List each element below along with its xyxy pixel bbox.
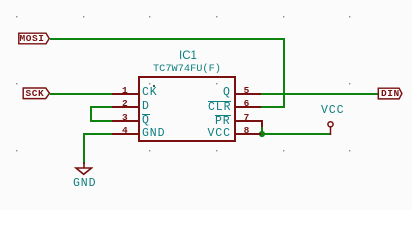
pin 3 name Q overline <box>142 114 150 126</box>
pin 1 name CK <box>142 88 158 98</box>
pin 2 D stub <box>112 106 139 108</box>
pin 5 Q stub <box>235 93 262 95</box>
junction <box>257 129 267 139</box>
wire junction to VCC <box>262 133 331 135</box>
wire loop bottom <box>91 120 112 122</box>
wire MOSI horizontal <box>50 38 285 40</box>
pin 3 Qbar stub <box>112 120 139 122</box>
pin 5 number <box>244 86 250 95</box>
wire GND vertical <box>83 133 85 164</box>
pin 7 PRbar stub <box>235 120 262 122</box>
wire loop D to Qbar top <box>91 106 112 108</box>
wire to pin 6 CLR <box>259 106 284 108</box>
global label DIN <box>376 86 412 102</box>
pin 7 name PR overline <box>215 115 231 127</box>
pin 2 number <box>122 99 128 108</box>
pin 6 name CLR overline <box>208 101 231 113</box>
pin 4 GND stub <box>112 133 139 135</box>
pin 6 CLRbar stub <box>235 106 262 108</box>
pin 7 number <box>244 113 250 122</box>
pin 1 CK stub <box>112 93 139 95</box>
global label SCK <box>21 86 61 102</box>
IC U1 body <box>138 76 236 143</box>
pin 8 VCC stub <box>235 133 262 135</box>
ground symbol <box>73 162 93 176</box>
pin 4 name GND <box>142 129 165 139</box>
TC7W74FU(F) value text <box>153 65 221 74</box>
wire Q to DIN <box>259 93 379 95</box>
pin 2 name D <box>142 102 150 112</box>
wire pin4 GND horizontal <box>84 133 112 135</box>
power symbol VCC <box>324 118 338 137</box>
wire pin7 PR vertical to junction <box>261 120 263 135</box>
pin 1 number <box>122 86 128 95</box>
wire loop left vertical <box>90 106 92 122</box>
global label MOSI <box>16 31 56 47</box>
IC1 reference text <box>179 52 197 61</box>
wire MOSI vertical <box>283 38 285 108</box>
VCC power label text <box>321 106 344 115</box>
pin7 red overlay on vertical <box>261 120 263 127</box>
artifact dot above CK <box>153 85 155 87</box>
pin 4 number <box>122 126 128 135</box>
pin 5 name Q <box>223 88 231 98</box>
wire SCK to pin 1 <box>50 93 112 95</box>
pin 6 number <box>244 99 250 108</box>
pin 8 number <box>244 126 250 135</box>
pin 8 name VCC <box>208 129 231 139</box>
GND power label text <box>73 179 96 188</box>
pin 3 number <box>122 113 128 122</box>
